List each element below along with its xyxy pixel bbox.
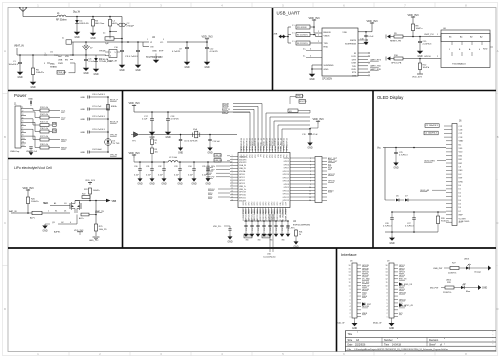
- label U10: [263, 254, 277, 259]
- svg-text:38: 38: [264, 138, 266, 140]
- svg-text:5: 5: [310, 171, 311, 173]
- boxed labels bus: [290, 94, 307, 104]
- net label USB_D1N: [206, 166, 230, 168]
- capacitor J1 shield: [28, 99, 33, 106]
- ic U6 internal pins2: [452, 52, 472, 56]
- port BAT_IN: [9, 210, 32, 213]
- svg-text:BS1: BS1: [459, 159, 463, 161]
- svg-text:GND: GND: [28, 99, 33, 101]
- net label SBU1: [49, 140, 67, 142]
- svg-text:VDD3A/IO: VDD3A/IO: [282, 208, 285, 217]
- resistor R18: [40, 144, 49, 149]
- resistor R30 bus: [288, 109, 310, 113]
- connector J8 label: [350, 261, 353, 263]
- ground Q3: [42, 224, 50, 233]
- net RXD: [483, 47, 493, 51]
- svg-text:8: 8: [350, 292, 351, 294]
- svg-text:GND: GND: [352, 328, 357, 330]
- svg-text:GND: GND: [417, 56, 422, 58]
- svg-text:GPIO11: GPIO11: [283, 194, 289, 196]
- ic U3 CP2102N: [322, 28, 358, 76]
- capacitor C47: [286, 220, 289, 231]
- svg-text:GND: GND: [482, 288, 487, 290]
- ground LED3: [488, 266, 491, 271]
- svg-text:GPIO4/ADC: GPIO4/ADC: [273, 208, 276, 219]
- ic U4 ESP32 body: [238, 153, 290, 208]
- svg-text:VCOMH: VCOMH: [459, 218, 467, 220]
- resistor R12: [418, 59, 429, 70]
- title block Size row: [348, 338, 446, 342]
- svg-text:ESP32-S3FH4R2: ESP32-S3FH4R2: [293, 224, 311, 226]
- power flag VDD_3V3 usb: [308, 17, 320, 35]
- resistor R31: [295, 230, 303, 236]
- svg-text:C22 4.7uF/6.3: C22 4.7uF/6.3: [92, 116, 106, 118]
- inductor L1: [56, 13, 67, 22]
- svg-text:0.1uF: 0.1uF: [89, 61, 95, 63]
- svg-text:15: 15: [349, 268, 351, 270]
- svg-text:2.2uF/6.3: 2.2uF/6.3: [423, 44, 433, 46]
- ground below D2: [93, 61, 100, 76]
- svg-text:4: 4: [350, 306, 351, 308]
- svg-text:0.1uF: 0.1uF: [174, 175, 180, 177]
- label VDD_RTC: [286, 228, 296, 231]
- svg-text:Dig_W: Dig_W: [73, 12, 81, 14]
- wire oled left vertical: [384, 148, 386, 201]
- net label BULK_P: [110, 100, 119, 102]
- svg-text:13: 13: [231, 191, 233, 193]
- net label VBUS J8: [362, 313, 368, 315]
- svg-text:R7 22.1R/1%: R7 22.1R/1%: [297, 34, 308, 36]
- svg-text:CHIP_PU/EN: CHIP_PU/EN: [286, 208, 288, 220]
- gnd label C46: [281, 240, 285, 242]
- net label 3V3 J9: [399, 303, 402, 305]
- net label GND_OUT J7: [328, 161, 338, 163]
- svg-text:GND: GND: [184, 67, 189, 69]
- svg-text:1 1: 1 1: [292, 41, 295, 43]
- svg-text:GPIO8/ADC: GPIO8/ADC: [262, 208, 265, 219]
- ground below R5: [30, 75, 37, 90]
- capacitor C6: [84, 50, 95, 63]
- capacitor C46: [280, 220, 283, 231]
- svg-text:TXD: TXD: [352, 66, 357, 68]
- svg-text:*: *: [357, 332, 358, 335]
- svg-text:RTS: RTS: [352, 72, 357, 74]
- resistor R24: [79, 201, 97, 225]
- port RST J8: [362, 303, 372, 307]
- svg-text:USB_D+: USB_D+: [239, 189, 247, 191]
- svg-text:7: 7: [22, 128, 23, 130]
- svg-text:SPIIO7/IO: SPIIO7/IO: [261, 142, 263, 151]
- svg-text:*: *: [493, 338, 494, 340]
- ground C43: [262, 227, 267, 237]
- svg-text:GND: GND: [227, 242, 232, 244]
- port VBB: [95, 199, 116, 203]
- svg-text:C: C: [4, 221, 6, 225]
- resistor R7: [288, 32, 322, 36]
- boxed label USB_DP: [214, 154, 230, 157]
- svg-text:VDD: VDD: [342, 32, 347, 34]
- bus wire GPIO46: [222, 103, 262, 146]
- svg-text:GND_TL2: GND_TL2: [89, 240, 99, 242]
- svg-text:2: 2: [350, 313, 351, 315]
- svg-text:USB_PW: USB_PW: [433, 268, 443, 270]
- capacitor C25: [394, 148, 408, 157]
- svg-text:VDD_3V3: VDD_3V3: [85, 180, 96, 182]
- svg-text:C33: C33: [174, 166, 177, 168]
- svg-text:OLED Display: OLED Display: [377, 95, 404, 100]
- capacitor C32: [158, 161, 166, 176]
- net label PWR_W J8: [362, 286, 369, 288]
- svg-text:RESET_PB: RESET_PB: [390, 41, 401, 43]
- svg-text:2700pF: 2700pF: [127, 26, 135, 28]
- svg-text:GPIO5: GPIO5: [284, 161, 290, 163]
- svg-text:2: 2: [310, 161, 311, 163]
- svg-text:7: 7: [350, 296, 351, 298]
- svg-text:G1: G1: [64, 203, 67, 205]
- svg-text:C31: C31: [146, 166, 149, 168]
- ground below C9: [184, 49, 191, 69]
- ic U4 right pins: [290, 157, 296, 159]
- ground C17: [149, 121, 156, 140]
- svg-text:41: 41: [272, 138, 274, 140]
- svg-text:GPIO11/ADC: GPIO11/ADC: [253, 208, 256, 220]
- resistor R21: [30, 202, 49, 220]
- capacitor C12: [205, 42, 219, 53]
- section divider vertical x=122: [122, 91, 124, 249]
- ground C44: [268, 227, 273, 237]
- svg-text:4.7uF/25: 4.7uF/25: [172, 51, 181, 53]
- svg-text:RXD: RXD: [483, 49, 488, 51]
- svg-text:10: 10: [349, 286, 351, 288]
- svg-text:10k/Pu: 10k/Pu: [416, 28, 424, 30]
- ground C34: [191, 171, 196, 186]
- svg-text:6: 6: [387, 299, 388, 301]
- ground C31: [149, 171, 154, 186]
- port GPIO_43: [399, 304, 414, 308]
- power flag U3 VDD: [366, 20, 378, 32]
- svg-text:13: 13: [386, 275, 388, 277]
- svg-text:8: 8: [22, 131, 23, 133]
- svg-text:GPIO33/SPI: GPIO33/SPI: [255, 140, 257, 151]
- svg-text:D6: D6: [459, 207, 461, 209]
- svg-text:GND: GND: [74, 37, 79, 39]
- svg-text:D-: D-: [303, 56, 306, 58]
- svg-text:VDD_3V3: VDD_3V3: [128, 102, 140, 105]
- capacitor C9: [172, 42, 189, 53]
- svg-text:B: B: [497, 135, 499, 139]
- svg-text:ESDA: ESDA: [111, 105, 117, 108]
- svg-text:GPIO18: GPIO18: [283, 181, 290, 183]
- transistor Q1: [69, 203, 71, 209]
- bus wire GPIO45: [222, 106, 258, 146]
- svg-text:0.1uF: 0.1uF: [158, 175, 164, 177]
- capacitor C1: [9, 55, 23, 66]
- svg-text:EN: EN: [65, 60, 68, 62]
- svg-text:GND: GND: [30, 87, 35, 89]
- svg-text:GPIO9: GPIO9: [284, 187, 290, 189]
- svg-text:PWR_EN: PWR_EN: [58, 72, 67, 74]
- svg-text:GND: GND: [83, 73, 88, 75]
- svg-text:VDD_3V3: VDD_3V3: [407, 14, 419, 17]
- svg-text:11: 11: [309, 190, 311, 192]
- svg-text:6: 6: [310, 174, 311, 176]
- ground C30: [137, 171, 142, 186]
- net label CC2: [49, 118, 66, 120]
- svg-text:GPIO12/ADC: GPIO12/ADC: [250, 208, 253, 220]
- svg-text:3: 3: [350, 310, 351, 312]
- net label 3V3 J8: [362, 303, 365, 305]
- capacitor C44: [268, 220, 271, 231]
- net label VIN_3V: [110, 155, 118, 157]
- ic U6 internal pins: [452, 42, 482, 46]
- svg-text:REGIN: REGIN: [324, 32, 331, 34]
- svg-text:CHIP_PU: CHIP_PU: [424, 34, 434, 36]
- svg-text:C20 4.7uF/6.3: C20 4.7uF/6.3: [92, 94, 106, 96]
- capacitor C2: [117, 23, 135, 28]
- net label GPIO17 J7: [328, 174, 335, 176]
- svg-text:4: 4: [310, 168, 311, 170]
- net label GPIO39 J8: [362, 265, 369, 267]
- port BOOT: [386, 57, 390, 61]
- power flag reset pullup: [407, 14, 419, 24]
- svg-text:RF 50ohm: RF 50ohm: [56, 20, 67, 22]
- svg-text:4: 4: [70, 222, 71, 224]
- connector J9 body: [389, 263, 394, 318]
- wire LED3 out: [469, 268, 488, 274]
- svg-text:TXD: TXD: [324, 43, 329, 45]
- section divider vertical x=272 (USB_UART): [272, 8, 274, 91]
- wire LED2 out: [464, 288, 478, 294]
- ground J9: [389, 318, 395, 330]
- power flag bus: [309, 118, 324, 129]
- svg-text:2x: 2x: [62, 38, 64, 40]
- svg-text:GPIO6: GPIO6: [284, 164, 290, 166]
- svg-text:VBAT_IN: VBAT_IN: [14, 45, 24, 48]
- net label GPIO8 J9: [399, 286, 405, 288]
- svg-text:A: A: [4, 49, 6, 53]
- ic U1 pins3: [58, 55, 73, 65]
- svg-text:GPIO13/ADC: GPIO13/ADC: [248, 208, 251, 220]
- svg-text:GPIO20: GPIO20: [239, 195, 246, 197]
- svg-text:0.1uF: 0.1uF: [368, 36, 374, 38]
- ground C42: [256, 227, 261, 237]
- resistor R3: [151, 145, 158, 163]
- section divider vertical x=336 (Interface): [336, 248, 338, 352]
- net label GPIO1 J9: [399, 265, 405, 267]
- svg-text:D: D: [4, 307, 6, 311]
- capacitor C26: [383, 212, 394, 228]
- svg-text:Time: Time: [384, 344, 390, 346]
- ground C25: [393, 154, 399, 170]
- wire R28 to LED2: [454, 287, 461, 289]
- svg-text:*: *: [444, 344, 445, 346]
- ground C41: [250, 227, 255, 237]
- capacitor C48: [213, 226, 232, 230]
- power flag VDD_3V3 row3: [128, 152, 140, 158]
- wire J1 row 3: [26, 119, 40, 125]
- connector J1 label: [14, 104, 17, 106]
- connector J6 pins: [446, 125, 452, 127]
- resistor R19: [107, 105, 118, 111]
- svg-text:2: 2: [318, 35, 319, 37]
- svg-text:L7CD8_4R: L7CD8_4R: [107, 61, 117, 63]
- svg-text:VDDSPI: VDDSPI: [239, 201, 247, 203]
- svg-text:SPIDQS/IO: SPIDQS/IO: [264, 141, 266, 151]
- svg-text:Number: Number: [384, 339, 393, 342]
- svg-text:GPIO4: GPIO4: [284, 158, 290, 160]
- capacitor C33: [174, 161, 182, 176]
- wire oled bottom rail: [392, 211, 446, 213]
- resistor R26: [436, 212, 449, 224]
- net label USB_D1P: [206, 169, 230, 171]
- usb port J2: [273, 34, 286, 39]
- svg-text:VDD_3V3: VDD_3V3: [412, 77, 423, 79]
- svg-text:C30: C30: [134, 166, 137, 168]
- svg-text:10: 10: [309, 187, 311, 189]
- svg-text:GPIO17: GPIO17: [283, 177, 290, 179]
- ground below C10: [119, 52, 126, 72]
- svg-text:USB_D-: USB_D-: [239, 186, 246, 188]
- led LED3: [466, 264, 471, 270]
- svg-text:1: 1: [48, 210, 49, 212]
- ferrite FB1 on rail: [66, 40, 72, 44]
- net D-: [303, 56, 322, 58]
- wire J1 row 4: [26, 122, 40, 131]
- capacitor C41: [250, 220, 253, 231]
- svg-text:G2: G2: [61, 222, 64, 224]
- svg-text:1 1: 1 1: [292, 25, 295, 27]
- diode D2: [94, 55, 112, 63]
- svg-text:D: D: [497, 307, 499, 311]
- wire cap rail y=162: [133, 158, 135, 162]
- svg-text:4.7uF/25: 4.7uF/25: [210, 51, 219, 53]
- net label GPIO11 J9: [399, 299, 406, 301]
- svg-text:R15 5.1k: R15 5.1k: [40, 122, 48, 124]
- svg-text:SPICS1: SPICS1: [239, 198, 246, 200]
- svg-text:10: 10: [22, 138, 24, 140]
- svg-text:GPIO16: GPIO16: [283, 174, 290, 176]
- svg-text:R16 5.1k: R16 5.1k: [40, 128, 48, 130]
- net label OLED_A3: [420, 189, 446, 192]
- svg-text:2: 2: [318, 31, 319, 33]
- wire mcu to U10: [270, 214, 273, 252]
- svg-text:DTR: DTR: [352, 59, 357, 61]
- section divider vertical x=373 (OLED): [372, 91, 374, 249]
- resistor R23: [84, 180, 100, 197]
- svg-text:ALPs: ALPs: [30, 217, 35, 220]
- wire antenna to L1: [23, 16, 57, 18]
- svg-text:4.7uF: 4.7uF: [313, 134, 319, 136]
- wire pi filter to rail: [114, 17, 123, 43]
- svg-text:220R/5%: 220R/5%: [448, 273, 456, 275]
- capacitor C31: [146, 161, 154, 176]
- net USB_PW: [433, 268, 450, 270]
- ground C18: [165, 121, 172, 140]
- svg-text:C1 100nF/6.3: C1 100nF/6.3: [426, 125, 439, 127]
- resistor R6: [288, 41, 322, 45]
- svg-text:2: 2: [22, 110, 23, 112]
- svg-text:SUSPEND: SUSPEND: [324, 65, 335, 67]
- resistor R28: [443, 282, 454, 294]
- svg-text:34: 34: [252, 138, 254, 140]
- net label RXD0 J8: [362, 296, 367, 298]
- ground C15: [417, 43, 424, 58]
- svg-text:0.1uF: 0.1uF: [188, 175, 194, 177]
- svg-text:ALPs: ALPs: [79, 217, 84, 220]
- power port VBAT_IN: [14, 45, 24, 56]
- svg-text:GPIO35/SPI: GPIO35/SPI: [249, 140, 251, 151]
- net label GPIO2 J9: [399, 268, 405, 270]
- capacitor C20: [80, 94, 108, 99]
- svg-text:4: 4: [479, 49, 480, 51]
- svg-text:GPIO10/ADC: GPIO10/ADC: [256, 208, 259, 220]
- svg-text:CHA_IN: CHA_IN: [239, 155, 247, 158]
- svg-text:16: 16: [386, 265, 388, 267]
- ic U6 outline: [441, 30, 490, 42]
- wire suspend gnd: [311, 65, 322, 72]
- svg-text:A1: A1: [54, 202, 56, 205]
- svg-text:30: 30: [241, 138, 243, 140]
- ground C45: [274, 227, 279, 237]
- net label CC1: [49, 111, 66, 113]
- svg-text:GPIO37/SPI: GPIO37/SPI: [244, 140, 246, 151]
- svg-text:LED3: LED3: [464, 259, 470, 261]
- svg-text:GND: GND: [177, 184, 182, 186]
- bus wire VDD_IO: [222, 112, 250, 146]
- svg-text:GND: GND: [307, 148, 312, 150]
- resistor R20: [26, 193, 39, 204]
- svg-text:16: 16: [231, 199, 233, 201]
- wire GPIO0: [403, 56, 440, 59]
- resistor R11: [288, 25, 322, 33]
- ground C47: [286, 227, 291, 237]
- svg-text:100k/Pu: 100k/Pu: [31, 201, 39, 203]
- boxed label USB_DN: [214, 159, 230, 162]
- net label GPIO4 J9: [399, 275, 405, 277]
- led LED3 label: [464, 259, 470, 261]
- svg-text:2022/9/26: 2022/9/26: [355, 344, 366, 346]
- net label GPIO3 J9: [399, 272, 405, 274]
- bus wire right e: [282, 129, 310, 146]
- svg-text:*: *: [444, 338, 445, 341]
- svg-text:GPIO2: GPIO2: [239, 180, 245, 182]
- svg-text:ESD5-3S: ESD5-3S: [80, 23, 90, 25]
- svg-text:R11 0R/DNI: R11 0R/DNI: [297, 27, 307, 29]
- bus wire right b: [270, 117, 310, 146]
- svg-text:RXD: RXD: [352, 69, 357, 71]
- svg-text:D1: D1: [459, 189, 461, 191]
- power flag VDD_3V3 mcu: [128, 102, 140, 108]
- svg-text:37: 37: [261, 138, 263, 140]
- svg-text:GPIO10: GPIO10: [283, 190, 290, 192]
- svg-text:VDD3P3: VDD3P3: [239, 159, 246, 161]
- gnd label C40: [245, 240, 249, 242]
- svg-text:*: *: [493, 332, 494, 334]
- svg-text:NuC: NuC: [58, 56, 63, 58]
- title block File row: [348, 348, 449, 351]
- svg-text:GPIO7: GPIO7: [284, 168, 290, 170]
- connector J6 label: [459, 121, 462, 123]
- svg-text:RSTB: RSTB: [350, 40, 356, 42]
- svg-text:D0: D0: [459, 185, 461, 187]
- resistor R8: [411, 24, 423, 37]
- svg-text:C35: C35: [202, 166, 205, 168]
- svg-text:DM: DM: [53, 131, 57, 133]
- capacitor C18: [166, 112, 180, 121]
- svg-text:5: 5: [22, 121, 23, 123]
- svg-text:8: 8: [310, 181, 311, 183]
- svg-text:X1A: X1A: [193, 128, 197, 131]
